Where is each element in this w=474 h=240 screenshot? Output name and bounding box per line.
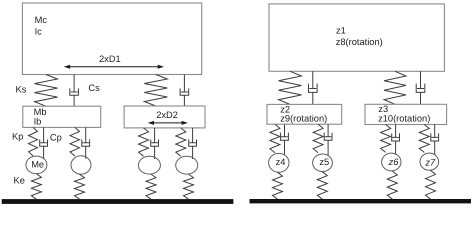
wheel z6 — [382, 153, 401, 171]
label Ic — [35, 27, 43, 37]
spring leg z7 — [419, 125, 429, 153]
label z3 — [378, 104, 388, 114]
spring leg z4 — [270, 124, 280, 153]
spring leg4 — [176, 128, 186, 156]
damper leg2 — [82, 127, 90, 158]
spring leg2 — [70, 127, 80, 156]
spring Ks — [35, 75, 58, 107]
damper leg3 — [151, 128, 159, 159]
svg-text:z5: z5 — [319, 157, 329, 167]
bogie mass Mb/Ib — [23, 106, 101, 127]
damper Cs — [70, 75, 79, 107]
label z9(rotation) — [280, 114, 327, 124]
svg-text:Ic: Ic — [35, 27, 43, 37]
contact spring z4 — [273, 172, 283, 199]
damper leg z5 — [324, 124, 332, 155]
contact spring z7 — [426, 170, 436, 199]
wheel leg3 — [138, 156, 160, 174]
spring leg z5 — [313, 124, 323, 153]
label 2xD2 — [156, 110, 178, 120]
svg-text:Mb: Mb — [34, 107, 47, 117]
label 2xD1 — [99, 54, 121, 64]
spring Kp — [29, 127, 38, 155]
svg-text:Cp: Cp — [50, 132, 62, 142]
car body mass z1/z8 — [269, 4, 444, 71]
svg-text:z3: z3 — [378, 104, 388, 114]
svg-text:z4: z4 — [276, 157, 286, 167]
dimension arrow 2xD2 — [148, 121, 188, 125]
label Ks — [16, 84, 27, 94]
svg-text:Me: Me — [31, 159, 44, 169]
contact spring z6 — [387, 171, 397, 199]
spring leg3 — [139, 128, 149, 156]
svg-text:z1: z1 — [336, 26, 346, 36]
bogie mass z3/z10 — [365, 104, 447, 124]
label Ib — [34, 117, 42, 127]
svg-text:Ke: Ke — [14, 176, 25, 186]
wheel z4 — [269, 153, 289, 172]
svg-text:z6: z6 — [388, 157, 400, 167]
label z10(rotation) — [378, 114, 430, 124]
label Mb — [34, 107, 47, 117]
svg-text:Mc: Mc — [35, 15, 48, 25]
spring z1-z3 — [384, 71, 406, 104]
wheel leg2 — [71, 156, 91, 174]
label z1 — [336, 26, 346, 36]
label Cs — [88, 83, 100, 93]
label z6 — [388, 157, 400, 167]
bogie mass z2/z9 — [267, 104, 342, 124]
svg-text:2xD1: 2xD1 — [99, 54, 121, 64]
car body mass Mc/Ic — [22, 3, 201, 75]
wheel leg4 — [176, 156, 198, 174]
svg-text:2xD2: 2xD2 — [156, 110, 178, 120]
label Me — [31, 159, 44, 169]
label z4 — [276, 157, 286, 167]
svg-text:z9(rotation): z9(rotation) — [280, 114, 327, 124]
contact spring z5 — [317, 172, 327, 200]
spring Ke — [31, 174, 41, 200]
spring rear bogie — [144, 75, 167, 107]
contact spring leg3 — [146, 174, 156, 199]
svg-text:z10(rotation): z10(rotation) — [378, 114, 430, 124]
dimension arrow 2xD1 — [64, 65, 164, 69]
wheel z5 — [313, 154, 333, 172]
label Kp — [12, 132, 23, 142]
label Cp — [50, 132, 62, 142]
damper leg4 — [189, 128, 197, 159]
contact spring leg4 — [184, 174, 194, 199]
label z8(rotation) — [336, 37, 383, 47]
svg-text:z8(rotation): z8(rotation) — [336, 37, 383, 47]
bogie mass 2xD2 box — [124, 106, 205, 128]
ground rail left — [2, 199, 234, 204]
label z7 — [424, 158, 436, 168]
svg-text:Ks: Ks — [16, 84, 27, 94]
spring leg z6 — [381, 125, 391, 153]
contact spring leg2 — [75, 174, 85, 199]
svg-text:z7: z7 — [424, 158, 436, 168]
svg-text:Kp: Kp — [12, 132, 23, 142]
damper Cp — [40, 127, 48, 158]
damper leg z7 — [431, 125, 439, 155]
damper z1-z2 — [309, 71, 318, 104]
label Mc — [35, 15, 48, 25]
damper leg z4 — [281, 124, 289, 155]
wheel mass Me — [26, 156, 47, 174]
damper rear bogie — [180, 75, 189, 107]
ground rail right — [250, 199, 472, 203]
svg-text:Cs: Cs — [88, 83, 100, 93]
svg-text:Ib: Ib — [34, 117, 42, 127]
damper leg z6 — [392, 125, 400, 155]
damper z1-z3 — [416, 71, 425, 104]
label z2 — [280, 105, 290, 115]
label Ke — [14, 176, 25, 186]
label z5 — [319, 157, 329, 167]
spring z1-z2 — [279, 71, 302, 104]
wheel z7 — [420, 153, 439, 170]
